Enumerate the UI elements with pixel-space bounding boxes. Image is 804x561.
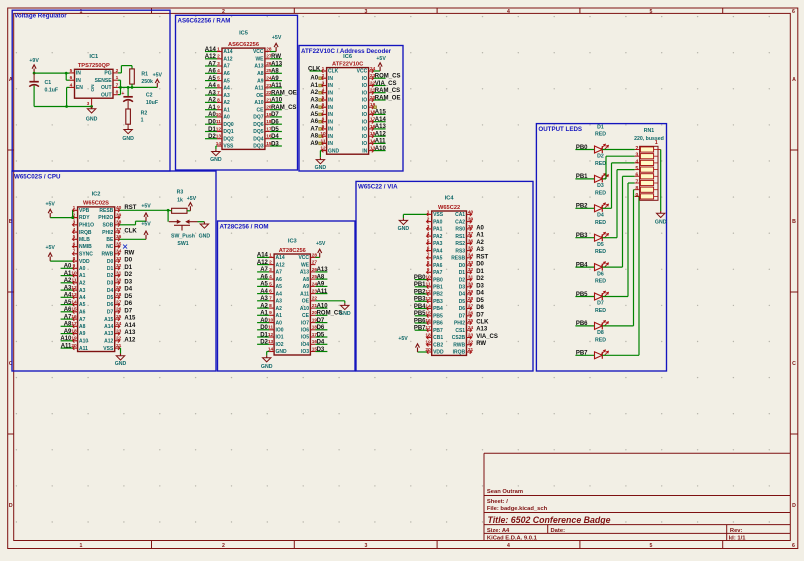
svg-text:GND: GND: [261, 364, 273, 370]
svg-text:A13: A13: [124, 330, 136, 336]
svg-text:39: 39: [116, 213, 122, 219]
svg-text:VDD: VDD: [433, 350, 444, 356]
svg-text:D0: D0: [459, 263, 466, 269]
svg-text:A0: A0: [79, 266, 86, 272]
svg-text:D6: D6: [124, 301, 132, 307]
svg-text:VCC: VCC: [298, 255, 309, 261]
svg-text:CE: CE: [302, 313, 310, 319]
svg-text:IN: IN: [328, 98, 333, 104]
svg-text:6: 6: [73, 242, 76, 248]
svg-text:D: D: [9, 503, 13, 509]
svg-text:5: 5: [217, 76, 220, 82]
svg-text:+5V: +5V: [187, 196, 197, 202]
svg-text:A4: A4: [310, 105, 318, 111]
svg-text:3: 3: [73, 220, 76, 226]
svg-text:6: 6: [792, 543, 795, 549]
svg-text:CLK: CLK: [308, 66, 321, 72]
svg-text:D5: D5: [476, 298, 484, 304]
svg-text:A6: A6: [310, 119, 318, 125]
svg-text:D5: D5: [107, 295, 114, 301]
svg-text:8: 8: [427, 260, 430, 266]
svg-text:WE: WE: [255, 57, 264, 63]
svg-text:RAM_OE: RAM_OE: [375, 95, 401, 101]
svg-text:IRQB: IRQB: [453, 350, 466, 356]
svg-text:25: 25: [116, 314, 122, 320]
svg-text:A7: A7: [310, 126, 318, 132]
svg-text:GND: GND: [86, 117, 98, 123]
svg-text:IO: IO: [362, 105, 367, 111]
svg-text:250k: 250k: [141, 79, 153, 85]
svg-text:5: 5: [427, 238, 430, 244]
svg-text:PB7: PB7: [414, 326, 426, 332]
svg-text:D3: D3: [124, 279, 132, 285]
svg-text:PB0: PB0: [414, 275, 426, 281]
svg-text:A12: A12: [276, 262, 285, 268]
svg-text:39: 39: [468, 217, 474, 223]
svg-text:IO: IO: [362, 90, 367, 96]
svg-text:9: 9: [269, 310, 272, 316]
svg-text:IO: IO: [362, 134, 367, 140]
svg-text:37: 37: [468, 231, 474, 237]
svg-text:W65C22 / VIA: W65C22 / VIA: [358, 184, 398, 191]
svg-text:A3: A3: [310, 97, 318, 103]
svg-text:6: 6: [792, 9, 795, 15]
svg-text:VSS: VSS: [223, 144, 234, 150]
svg-text:IN: IN: [362, 148, 367, 154]
svg-text:A12: A12: [375, 132, 387, 138]
svg-text:IC1: IC1: [89, 54, 98, 60]
svg-text:25: 25: [468, 318, 474, 324]
svg-text:A10: A10: [271, 98, 283, 104]
svg-text:A: A: [792, 77, 796, 83]
svg-text:4: 4: [269, 274, 272, 280]
svg-text:A2: A2: [79, 281, 86, 287]
svg-text:MLB: MLB: [79, 237, 90, 243]
svg-text:D0: D0: [260, 325, 268, 331]
svg-text:1: 1: [322, 66, 325, 72]
svg-text:PB2: PB2: [433, 292, 443, 298]
svg-text:26: 26: [468, 311, 474, 317]
svg-text:2: 2: [222, 543, 225, 549]
svg-text:RS1: RS1: [455, 234, 465, 240]
svg-text:7: 7: [217, 90, 220, 96]
svg-text:A5: A5: [79, 302, 86, 308]
svg-text:A0: A0: [476, 225, 484, 231]
svg-text:A6: A6: [223, 71, 230, 77]
svg-text:IN: IN: [328, 90, 333, 96]
svg-text:D7: D7: [107, 310, 114, 316]
svg-text:2: 2: [222, 9, 225, 15]
svg-text:OUT: OUT: [101, 85, 112, 91]
svg-text:GND: GND: [315, 165, 327, 171]
svg-text:3: 3: [365, 9, 368, 15]
svg-text:D3: D3: [107, 281, 114, 287]
svg-text:PB5: PB5: [414, 311, 426, 317]
svg-text:PB7: PB7: [433, 328, 443, 334]
svg-text:RN1: RN1: [644, 128, 654, 134]
svg-text:34: 34: [116, 249, 122, 255]
svg-text:KiCad E.D.A. 9.0.1: KiCad E.D.A. 9.0.1: [487, 535, 538, 541]
svg-text:CS1: CS1: [455, 328, 465, 334]
svg-text:Size: A4: Size: A4: [487, 528, 510, 534]
svg-text:22: 22: [116, 336, 122, 342]
svg-text:AS6C62256 / RAM: AS6C62256 / RAM: [178, 18, 231, 25]
svg-text:A9: A9: [271, 76, 279, 82]
svg-text:W65C22: W65C22: [438, 205, 460, 211]
svg-text:CA2: CA2: [455, 219, 465, 225]
svg-text:IC6: IC6: [343, 54, 352, 60]
svg-text:D1: D1: [476, 269, 484, 275]
svg-text:A8: A8: [303, 277, 310, 283]
svg-text:CE: CE: [257, 107, 265, 113]
svg-text:D6: D6: [271, 120, 279, 126]
svg-text:A11: A11: [317, 289, 328, 295]
svg-text:VIA_CS: VIA_CS: [476, 334, 498, 340]
svg-text:PB5: PB5: [433, 314, 443, 320]
svg-text:RESB: RESB: [451, 256, 465, 262]
svg-text:VSS: VSS: [433, 212, 444, 218]
svg-text:A4: A4: [64, 293, 72, 299]
svg-text:A12: A12: [223, 57, 232, 63]
svg-text:23: 23: [116, 328, 122, 334]
svg-text:30: 30: [468, 282, 474, 288]
svg-text:A3: A3: [276, 299, 283, 305]
svg-text:A6: A6: [260, 274, 268, 280]
svg-text:IO5: IO5: [301, 335, 309, 341]
svg-text:A11: A11: [375, 139, 386, 145]
svg-text:A6: A6: [79, 310, 86, 316]
svg-text:VDD: VDD: [79, 259, 90, 265]
svg-text:A4: A4: [223, 86, 230, 92]
svg-text:Date:: Date:: [551, 528, 566, 534]
svg-text:A15: A15: [124, 316, 136, 322]
svg-text:RED: RED: [595, 132, 606, 138]
svg-text:21: 21: [468, 347, 474, 353]
svg-text:OUT: OUT: [101, 92, 112, 98]
svg-text:RESB: RESB: [99, 208, 113, 214]
svg-text:35: 35: [116, 242, 122, 248]
svg-text:A0: A0: [260, 318, 268, 324]
svg-text:A3: A3: [260, 296, 268, 302]
svg-text:2: 2: [427, 217, 430, 223]
svg-text:ON: ON: [90, 84, 96, 92]
svg-text:32: 32: [116, 263, 122, 269]
svg-text:A7: A7: [208, 61, 216, 67]
svg-text:PA2: PA2: [433, 234, 443, 240]
svg-text:RST: RST: [476, 254, 488, 260]
svg-text:DQ6: DQ6: [253, 122, 264, 128]
svg-text:D4: D4: [124, 287, 132, 293]
svg-text:A6: A6: [208, 69, 216, 75]
svg-text:A9: A9: [64, 329, 72, 335]
svg-text:D4: D4: [271, 134, 279, 140]
svg-text:SW_Push: SW_Push: [171, 234, 195, 240]
svg-text:7: 7: [322, 109, 325, 115]
svg-text:IC2: IC2: [92, 191, 101, 197]
svg-text:D2: D2: [597, 154, 604, 160]
svg-text:D1: D1: [260, 332, 268, 338]
svg-text:A5: A5: [64, 300, 72, 306]
svg-text:CLK: CLK: [328, 69, 339, 75]
svg-text:2: 2: [322, 73, 325, 79]
svg-text:BE: BE: [106, 237, 114, 243]
svg-text:9: 9: [322, 124, 325, 130]
svg-text:1: 1: [655, 140, 658, 146]
svg-text:A1: A1: [310, 83, 318, 89]
svg-text:NMIB: NMIB: [79, 244, 92, 250]
svg-text:PHI2: PHI2: [102, 230, 113, 236]
svg-text:GND: GND: [328, 148, 340, 154]
svg-text:31: 31: [116, 270, 122, 276]
svg-text:PB6: PB6: [433, 321, 443, 327]
svg-text:34: 34: [468, 253, 474, 259]
svg-text:6: 6: [269, 289, 272, 295]
svg-text:8: 8: [73, 256, 76, 262]
svg-text:D2: D2: [459, 277, 466, 283]
svg-text:IC3: IC3: [288, 239, 297, 245]
svg-text:D3: D3: [271, 141, 279, 147]
svg-text:1: 1: [427, 209, 430, 215]
svg-text:A12: A12: [104, 339, 113, 345]
svg-text:A10: A10: [60, 336, 72, 342]
svg-text:1k: 1k: [177, 197, 183, 203]
svg-text:6: 6: [217, 83, 220, 89]
svg-text:EN: EN: [76, 85, 83, 91]
svg-text:VSS: VSS: [103, 346, 114, 352]
svg-text:A14: A14: [375, 117, 387, 123]
svg-text:RW: RW: [476, 341, 486, 347]
svg-text:GND: GND: [122, 136, 134, 142]
svg-text:A7: A7: [276, 270, 283, 276]
svg-text:PA6: PA6: [433, 263, 443, 269]
svg-text:29: 29: [468, 289, 474, 295]
svg-text:GND: GND: [115, 361, 127, 367]
svg-text:1: 1: [217, 46, 220, 52]
svg-text:R3: R3: [177, 189, 184, 195]
svg-text:D7: D7: [317, 318, 325, 324]
svg-text:IN: IN: [328, 83, 333, 89]
svg-text:RAM_OE: RAM_OE: [271, 90, 297, 96]
svg-text:A7: A7: [223, 64, 230, 70]
svg-text:A3: A3: [79, 288, 86, 294]
svg-text:RED: RED: [595, 161, 606, 167]
svg-text:3: 3: [217, 61, 220, 67]
svg-text:220, bussed: 220, bussed: [634, 136, 664, 142]
svg-text:A2: A2: [310, 90, 318, 96]
svg-text:TPS7250QP: TPS7250QP: [78, 63, 110, 69]
svg-text:RED: RED: [595, 220, 606, 226]
svg-text:A14: A14: [276, 255, 285, 261]
svg-text:D6: D6: [597, 271, 604, 277]
svg-text:D7: D7: [476, 312, 484, 318]
svg-text:4: 4: [73, 227, 76, 233]
svg-text:D2: D2: [124, 272, 132, 278]
svg-text:D1: D1: [124, 265, 132, 271]
svg-text:DQ5: DQ5: [253, 129, 264, 135]
svg-text:A13: A13: [317, 267, 329, 273]
svg-text:A3: A3: [223, 93, 230, 99]
svg-text:PA3: PA3: [433, 241, 443, 247]
svg-text:RWB: RWB: [453, 342, 465, 348]
svg-text:7: 7: [427, 253, 430, 259]
svg-text:VPB: VPB: [79, 208, 90, 214]
svg-text:A10: A10: [79, 339, 88, 345]
svg-text:A13: A13: [375, 124, 387, 130]
svg-text:RDY: RDY: [79, 215, 90, 221]
svg-text:A14: A14: [223, 49, 232, 55]
svg-text:DQ1: DQ1: [223, 129, 234, 135]
svg-text:RST: RST: [124, 205, 136, 211]
svg-text:21: 21: [116, 343, 122, 349]
svg-text:5: 5: [650, 9, 653, 15]
svg-text:27: 27: [312, 260, 318, 266]
svg-text:1: 1: [269, 252, 272, 258]
svg-text:A2: A2: [476, 240, 484, 246]
svg-text:37: 37: [116, 227, 122, 233]
svg-text:24: 24: [116, 321, 122, 327]
svg-text:29: 29: [116, 285, 122, 291]
svg-text:+5V: +5V: [398, 336, 408, 342]
svg-text:SENSE: SENSE: [95, 78, 113, 84]
svg-text:RW: RW: [124, 250, 134, 256]
svg-text:OUTPUT LEDS: OUTPUT LEDS: [538, 126, 582, 133]
svg-text:33: 33: [468, 260, 474, 266]
svg-text:9: 9: [217, 105, 220, 111]
svg-text:NC: NC: [106, 244, 114, 250]
svg-text:A9: A9: [79, 331, 86, 337]
svg-text:RS3: RS3: [455, 248, 465, 254]
svg-text:A13: A13: [271, 61, 283, 67]
svg-text:30: 30: [116, 278, 122, 284]
svg-text:IO0: IO0: [276, 328, 284, 334]
svg-text:A10: A10: [300, 306, 309, 312]
svg-text:D0: D0: [107, 259, 114, 265]
svg-text:6: 6: [70, 75, 73, 81]
svg-text:4: 4: [217, 68, 220, 74]
svg-text:D4: D4: [107, 288, 114, 294]
svg-text:RAM_CS: RAM_CS: [375, 88, 400, 94]
svg-text:DQ2: DQ2: [223, 136, 234, 142]
svg-text:40: 40: [468, 209, 474, 215]
svg-text:A6: A6: [276, 277, 283, 283]
svg-text:5: 5: [269, 281, 272, 287]
svg-text:IO4: IO4: [301, 342, 309, 348]
svg-text:A7: A7: [64, 314, 72, 320]
svg-text:AT28C256: AT28C256: [279, 248, 306, 254]
svg-text:VIA_CS: VIA_CS: [375, 81, 397, 87]
svg-text:2: 2: [269, 260, 272, 266]
svg-text:GND: GND: [199, 234, 211, 240]
svg-text:9: 9: [73, 263, 76, 269]
svg-text:A0: A0: [64, 264, 72, 270]
svg-text:A11: A11: [79, 346, 88, 352]
svg-text:IN: IN: [328, 141, 333, 147]
svg-text:D6: D6: [459, 306, 466, 312]
svg-text:D4: D4: [597, 213, 604, 219]
svg-text:10uF: 10uF: [146, 100, 158, 106]
svg-text:File: badge.kicad_sch: File: badge.kicad_sch: [487, 506, 548, 512]
svg-text:VCC: VCC: [357, 69, 368, 75]
svg-text:A3: A3: [208, 90, 216, 96]
svg-text:IO: IO: [362, 119, 367, 125]
svg-text:A14: A14: [205, 47, 217, 53]
svg-text:0.1uF: 0.1uF: [45, 87, 59, 93]
svg-text:A1: A1: [223, 107, 230, 113]
svg-text:A10: A10: [254, 100, 263, 106]
svg-text:CLK: CLK: [124, 229, 137, 235]
svg-text:DQ7: DQ7: [253, 115, 264, 121]
svg-text:A8: A8: [257, 71, 264, 77]
svg-text:A3: A3: [476, 247, 484, 253]
svg-text:IN: IN: [76, 71, 81, 77]
svg-text:9: 9: [427, 267, 430, 273]
svg-text:PB3: PB3: [433, 299, 443, 305]
svg-text:A1: A1: [476, 233, 484, 239]
svg-text:4: 4: [70, 82, 73, 88]
svg-text:A3: A3: [64, 285, 72, 291]
svg-text:B: B: [792, 219, 796, 225]
svg-text:8: 8: [217, 97, 220, 103]
svg-text:28: 28: [116, 292, 122, 298]
svg-text:+5V: +5V: [141, 221, 151, 227]
svg-text:PB4: PB4: [433, 306, 443, 312]
svg-text:A11: A11: [271, 83, 282, 89]
svg-text:A14: A14: [104, 324, 113, 330]
svg-text:IO: IO: [362, 76, 367, 82]
svg-text:D7: D7: [459, 314, 466, 320]
svg-text:6: 6: [635, 173, 638, 179]
svg-text:D5: D5: [317, 332, 325, 338]
svg-text:DQ4: DQ4: [253, 136, 264, 142]
svg-text:A12: A12: [205, 54, 217, 60]
svg-text:4: 4: [322, 88, 325, 94]
svg-text:1: 1: [141, 118, 144, 124]
svg-text:CLK: CLK: [476, 320, 489, 326]
svg-text:D3: D3: [597, 183, 604, 189]
svg-text:PB4: PB4: [414, 304, 426, 310]
svg-text:D1: D1: [107, 266, 114, 272]
svg-text:D1: D1: [208, 127, 216, 133]
svg-text:4: 4: [507, 543, 510, 549]
svg-text:8: 8: [635, 186, 638, 192]
svg-text:A6: A6: [64, 307, 72, 313]
svg-text:CB2: CB2: [433, 342, 443, 348]
svg-text:A1: A1: [260, 311, 268, 317]
svg-text:A14: A14: [124, 323, 136, 329]
svg-text:D6: D6: [107, 302, 114, 308]
svg-text:D8: D8: [597, 330, 604, 336]
svg-text:A11: A11: [61, 343, 72, 349]
svg-text:A2: A2: [208, 98, 216, 104]
svg-text:5: 5: [635, 166, 638, 172]
svg-text:R2: R2: [141, 111, 148, 117]
svg-text:RED: RED: [595, 279, 606, 285]
svg-text:AS6C62256: AS6C62256: [228, 42, 259, 48]
svg-text:A9: A9: [310, 141, 318, 147]
svg-text:A0: A0: [223, 115, 230, 121]
svg-text:+5V: +5V: [141, 204, 151, 210]
svg-text:3: 3: [427, 224, 430, 230]
svg-text:4: 4: [427, 231, 430, 237]
svg-text:VCC: VCC: [253, 49, 264, 55]
svg-text:D5: D5: [124, 294, 132, 300]
svg-text:A11: A11: [300, 291, 309, 297]
svg-text:A14: A14: [257, 253, 269, 259]
svg-text:6: 6: [322, 102, 325, 108]
svg-text:A7: A7: [260, 267, 268, 273]
svg-text:3: 3: [635, 153, 638, 159]
svg-text:Id: 1/1: Id: 1/1: [729, 535, 747, 541]
